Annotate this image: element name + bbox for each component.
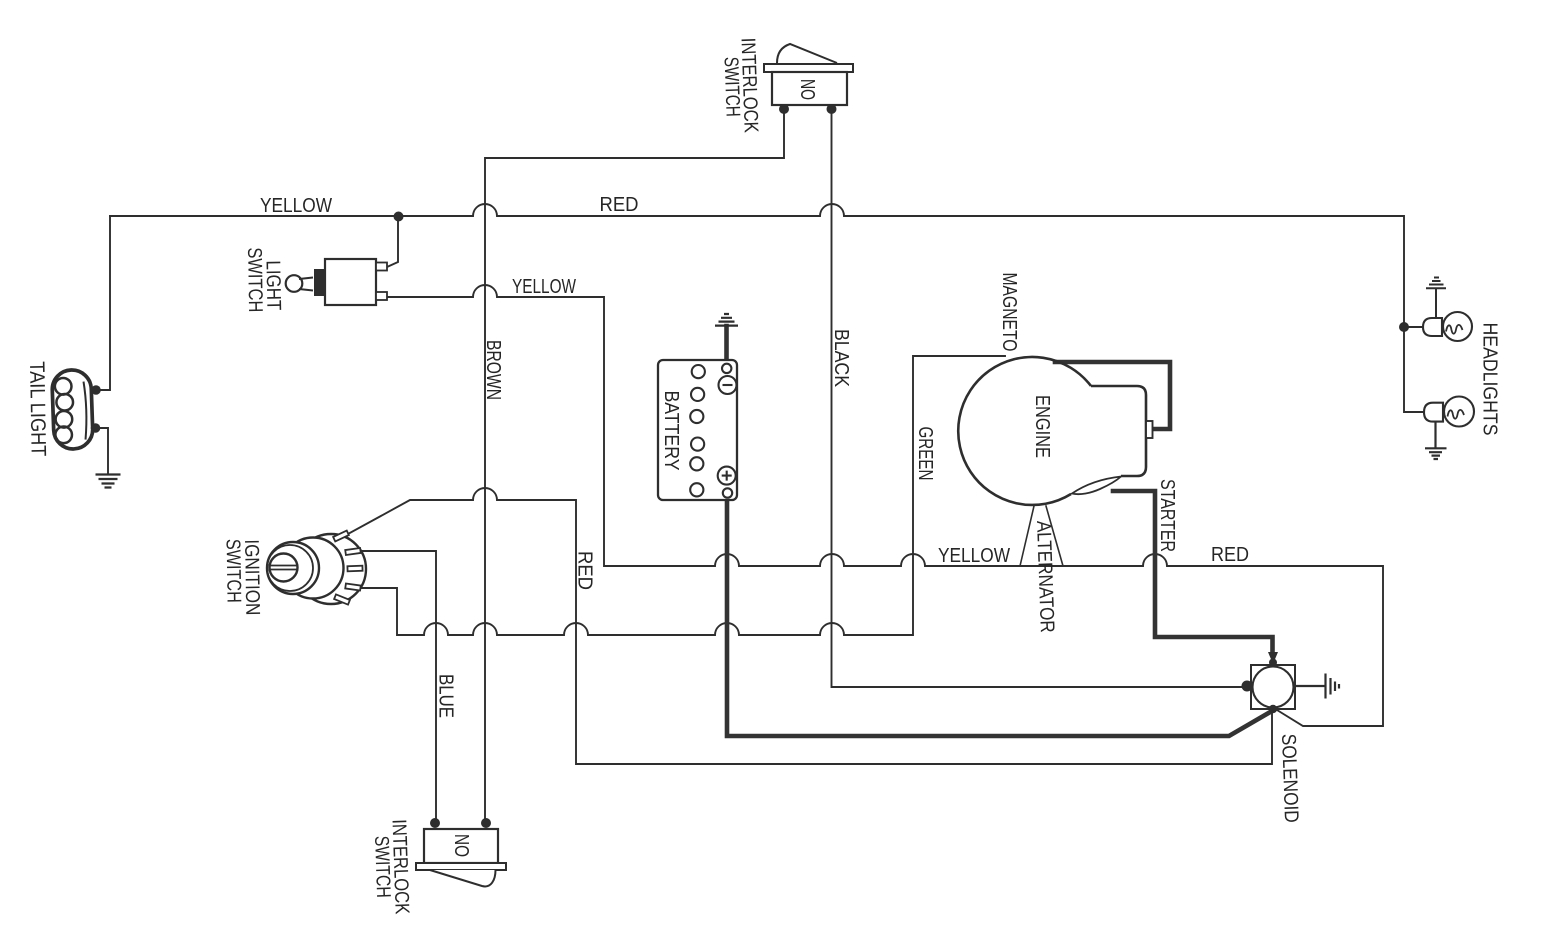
svg-text:BLUE: BLUE — [435, 674, 457, 718]
cable battery positive to solenoid — [727, 492, 1272, 736]
tail light terminals — [91, 385, 101, 395]
cable battery negative to ground — [724, 326, 729, 366]
svg-text:SWITCH: SWITCH — [243, 247, 266, 312]
svg-text:BATTERY: BATTERY — [660, 391, 682, 471]
svg-text:STARTER: STARTER — [1156, 479, 1178, 552]
svg-text:RED: RED — [600, 194, 639, 216]
svg-text:YELLOW: YELLOW — [260, 195, 332, 217]
svg-text:RED: RED — [1211, 544, 1249, 566]
svg-text:ENGINE: ENGINE — [1031, 395, 1053, 458]
svg-text:TAIL LIGHT: TAIL LIGHT — [25, 361, 50, 457]
svg-text:SWITCH: SWITCH — [222, 539, 245, 603]
cable magneto — [1055, 362, 1170, 429]
battery — [658, 360, 737, 500]
svg-text:BLACK: BLACK — [830, 329, 852, 388]
interlock switch bottom — [416, 818, 506, 886]
wire tail light ground lead — [100, 428, 108, 473]
wire blue — [361, 551, 436, 822]
wire top bus yellow/red — [110, 204, 1423, 412]
svg-text:NO: NO — [796, 79, 818, 100]
wire light switch tap — [387, 217, 398, 267]
ground below bottom headlight — [1425, 422, 1447, 459]
svg-text:GREEN: GREEN — [914, 427, 936, 481]
svg-text:SWITCH: SWITCH — [720, 56, 744, 117]
engine — [958, 357, 1152, 505]
wire tail light feed — [101, 216, 110, 390]
headlight bottom — [1424, 397, 1474, 427]
svg-text:BROWN: BROWN — [482, 340, 504, 400]
svg-text:HEADLIGHTS: HEADLIGHTS — [1479, 323, 1501, 436]
wire headlight top branch — [1404, 326, 1423, 328]
wire red from ignition to solenoid — [348, 488, 1272, 764]
headlight top — [1423, 312, 1472, 341]
ignition switch — [267, 531, 366, 605]
svg-text:YELLOW: YELLOW — [512, 276, 576, 298]
tail light — [52, 369, 94, 449]
svg-text:YELLOW: YELLOW — [938, 545, 1010, 567]
thick cables — [727, 326, 1273, 736]
light switch LS1 — [286, 259, 387, 305]
svg-text:SWITCH: SWITCH — [370, 835, 394, 898]
ground tail light — [96, 475, 121, 488]
cable starter — [1113, 491, 1273, 652]
wire brown — [485, 112, 784, 822]
svg-text:NO: NO — [450, 834, 472, 857]
svg-text:RED: RED — [574, 551, 596, 590]
svg-text:ALTERNATOR: ALTERNATOR — [1032, 520, 1058, 633]
wire bus2 / green / magneto — [360, 356, 1005, 635]
solenoid — [1242, 652, 1296, 713]
ground above top headlight — [1426, 278, 1446, 319]
ground right of solenoid — [1295, 674, 1339, 699]
alternator leader lines — [1020, 506, 1063, 566]
junction dot headlight — [1399, 322, 1409, 332]
wire black — [832, 112, 1243, 687]
junction dot light switch tap — [394, 212, 404, 222]
ground above battery — [715, 314, 738, 326]
svg-text:SOLENOID: SOLENOID — [1277, 733, 1302, 823]
interlock switch top — [764, 44, 853, 114]
wire yellow from light switch — [386, 285, 1383, 726]
svg-text:MAGNETO: MAGNETO — [998, 273, 1020, 352]
